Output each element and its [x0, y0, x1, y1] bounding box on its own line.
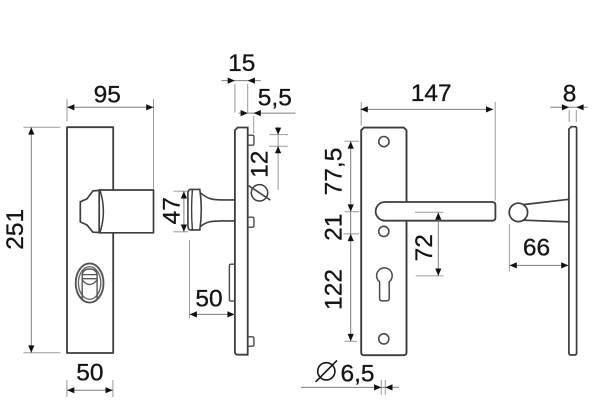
- interior plate outline: [361, 128, 406, 356]
- oval cylinder rosette inner: [78, 267, 100, 300]
- dimension 147: [360, 80, 495, 201]
- dimension 95: [67, 81, 154, 188]
- knob neck bottom curve: [201, 221, 235, 226]
- knob side bottom edge: [191, 229, 200, 231]
- dimension diameter 6,5: [301, 360, 399, 394]
- svg-text:8: 8: [563, 81, 577, 108]
- knob neck arc: [100, 190, 103, 232]
- dimension chain 77,5 / 21 / 122: [320, 141, 359, 341]
- screw tab bottom: [248, 337, 254, 346]
- dimension 5,5: [239, 85, 296, 134]
- cylinder bump side: [229, 264, 235, 301]
- dimension 66: [509, 224, 568, 272]
- dimension 50 knob projection: [190, 240, 235, 319]
- screw hole middle: [379, 226, 389, 236]
- svg-text:72: 72: [411, 234, 438, 261]
- handle grip end circle: [509, 203, 527, 221]
- oval cylinder rosette outer: [76, 263, 104, 302]
- svg-text:251: 251: [2, 209, 29, 250]
- screw hole bottom: [379, 334, 389, 344]
- knob body rectangle: [99, 190, 153, 233]
- svg-text:50: 50: [195, 285, 222, 312]
- cylinder cover: [82, 269, 97, 298]
- svg-text:47: 47: [159, 197, 186, 224]
- svg-text:21: 21: [320, 214, 347, 241]
- svg-text:77,5: 77,5: [321, 148, 348, 196]
- knob side face: [188, 189, 191, 230]
- knob side top edge: [191, 188, 200, 190]
- svg-text:5,5: 5,5: [258, 85, 292, 112]
- handle taper bottom line: [523, 220, 569, 222]
- svg-text:12: 12: [247, 151, 274, 178]
- knob side back arc: [200, 189, 202, 230]
- dimension 8: [550, 81, 587, 123]
- knob neck top curve: [201, 193, 235, 200]
- knob side face band: [191, 190, 194, 230]
- interior plate side outline: [569, 127, 577, 355]
- svg-text:95: 95: [94, 81, 121, 108]
- svg-text:66: 66: [523, 234, 550, 261]
- dimension 47 (between views): [159, 191, 189, 232]
- cylinder cover line 2: [82, 278, 97, 280]
- knob head profile (front view): [80, 190, 99, 232]
- screw hole top: [379, 137, 389, 147]
- cylinder cover line 1: [82, 274, 97, 276]
- dimension 72: [411, 212, 444, 276]
- screw tab middle: [248, 217, 254, 227]
- euro keyhole: [377, 268, 393, 301]
- lever handle (front view): [376, 202, 496, 221]
- screw tab top: [248, 135, 254, 145]
- svg-text:147: 147: [411, 80, 452, 107]
- dimension 251: [2, 127, 61, 353]
- dimension diameter 12: [247, 127, 288, 201]
- svg-text:122: 122: [320, 269, 347, 310]
- cylinder cover smile arc: [82, 280, 97, 284]
- svg-text:50: 50: [76, 360, 103, 387]
- exterior plate outline: [67, 127, 113, 353]
- svg-text:6,5: 6,5: [340, 361, 374, 388]
- svg-text:15: 15: [228, 50, 255, 77]
- dimension 50 bottom-left: [67, 360, 113, 398]
- handle taper top line: [523, 199, 569, 204]
- side plate outline: [235, 128, 248, 355]
- dimension 15: [222, 50, 261, 113]
